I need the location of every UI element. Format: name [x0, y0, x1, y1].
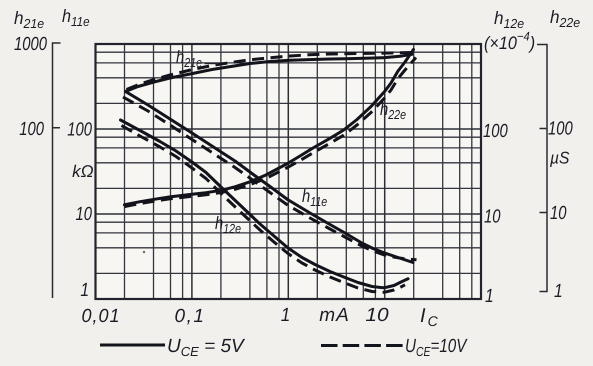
svg-text:100: 100 — [548, 119, 573, 140]
svg-text:UCE = 5V: UCE = 5V — [167, 336, 246, 359]
curve h21e dashed (UCE=10V) — [127, 52, 419, 89]
svg-text:100: 100 — [67, 120, 92, 141]
legend dashed line — [321, 344, 403, 347]
svg-text:kΩ: kΩ — [72, 162, 94, 181]
speck — [143, 251, 145, 253]
svg-text:100: 100 — [19, 119, 44, 140]
curve h11e dashed (UCE=10V) — [123, 97, 417, 260]
svg-text:0,01: 0,01 — [82, 306, 121, 327]
curve h11e solid (UCE=5V) — [126, 92, 414, 263]
h21e left scale bracket — [53, 43, 61, 298]
svg-text:UCE=10V: UCE=10V — [405, 336, 468, 359]
svg-text:1: 1 — [80, 280, 89, 301]
svg-text:mA: mA — [319, 305, 350, 326]
svg-text:0,1: 0,1 — [175, 306, 206, 327]
curve h12e dashed (UCE=10V) — [122, 126, 406, 293]
svg-text:1: 1 — [554, 281, 563, 302]
svg-text:10: 10 — [550, 203, 567, 224]
svg-text:1: 1 — [485, 286, 494, 307]
label pointer line h21e — [205, 63, 219, 65]
svg-text:10: 10 — [484, 207, 501, 228]
svg-text:1: 1 — [281, 305, 291, 326]
legend solid line — [100, 344, 165, 347]
svg-text:100: 100 — [483, 121, 508, 142]
svg-text:1000: 1000 — [14, 34, 47, 55]
curve h21e solid (UCE=5V) — [126, 54, 413, 91]
svg-text:µS: µS — [549, 149, 570, 168]
svg-text:10: 10 — [76, 204, 93, 225]
h22e right scale bracket — [537, 45, 547, 292]
curve h22e dashed (UCE=10V) — [124, 58, 416, 207]
curve h22e solid (UCE=5V) — [124, 50, 413, 205]
plot border — [96, 44, 482, 299]
svg-text:10: 10 — [365, 305, 389, 326]
curve h12e solid (UCE=5V) — [121, 120, 409, 288]
minor grid — [96, 44, 482, 299]
major grid — [96, 44, 482, 299]
